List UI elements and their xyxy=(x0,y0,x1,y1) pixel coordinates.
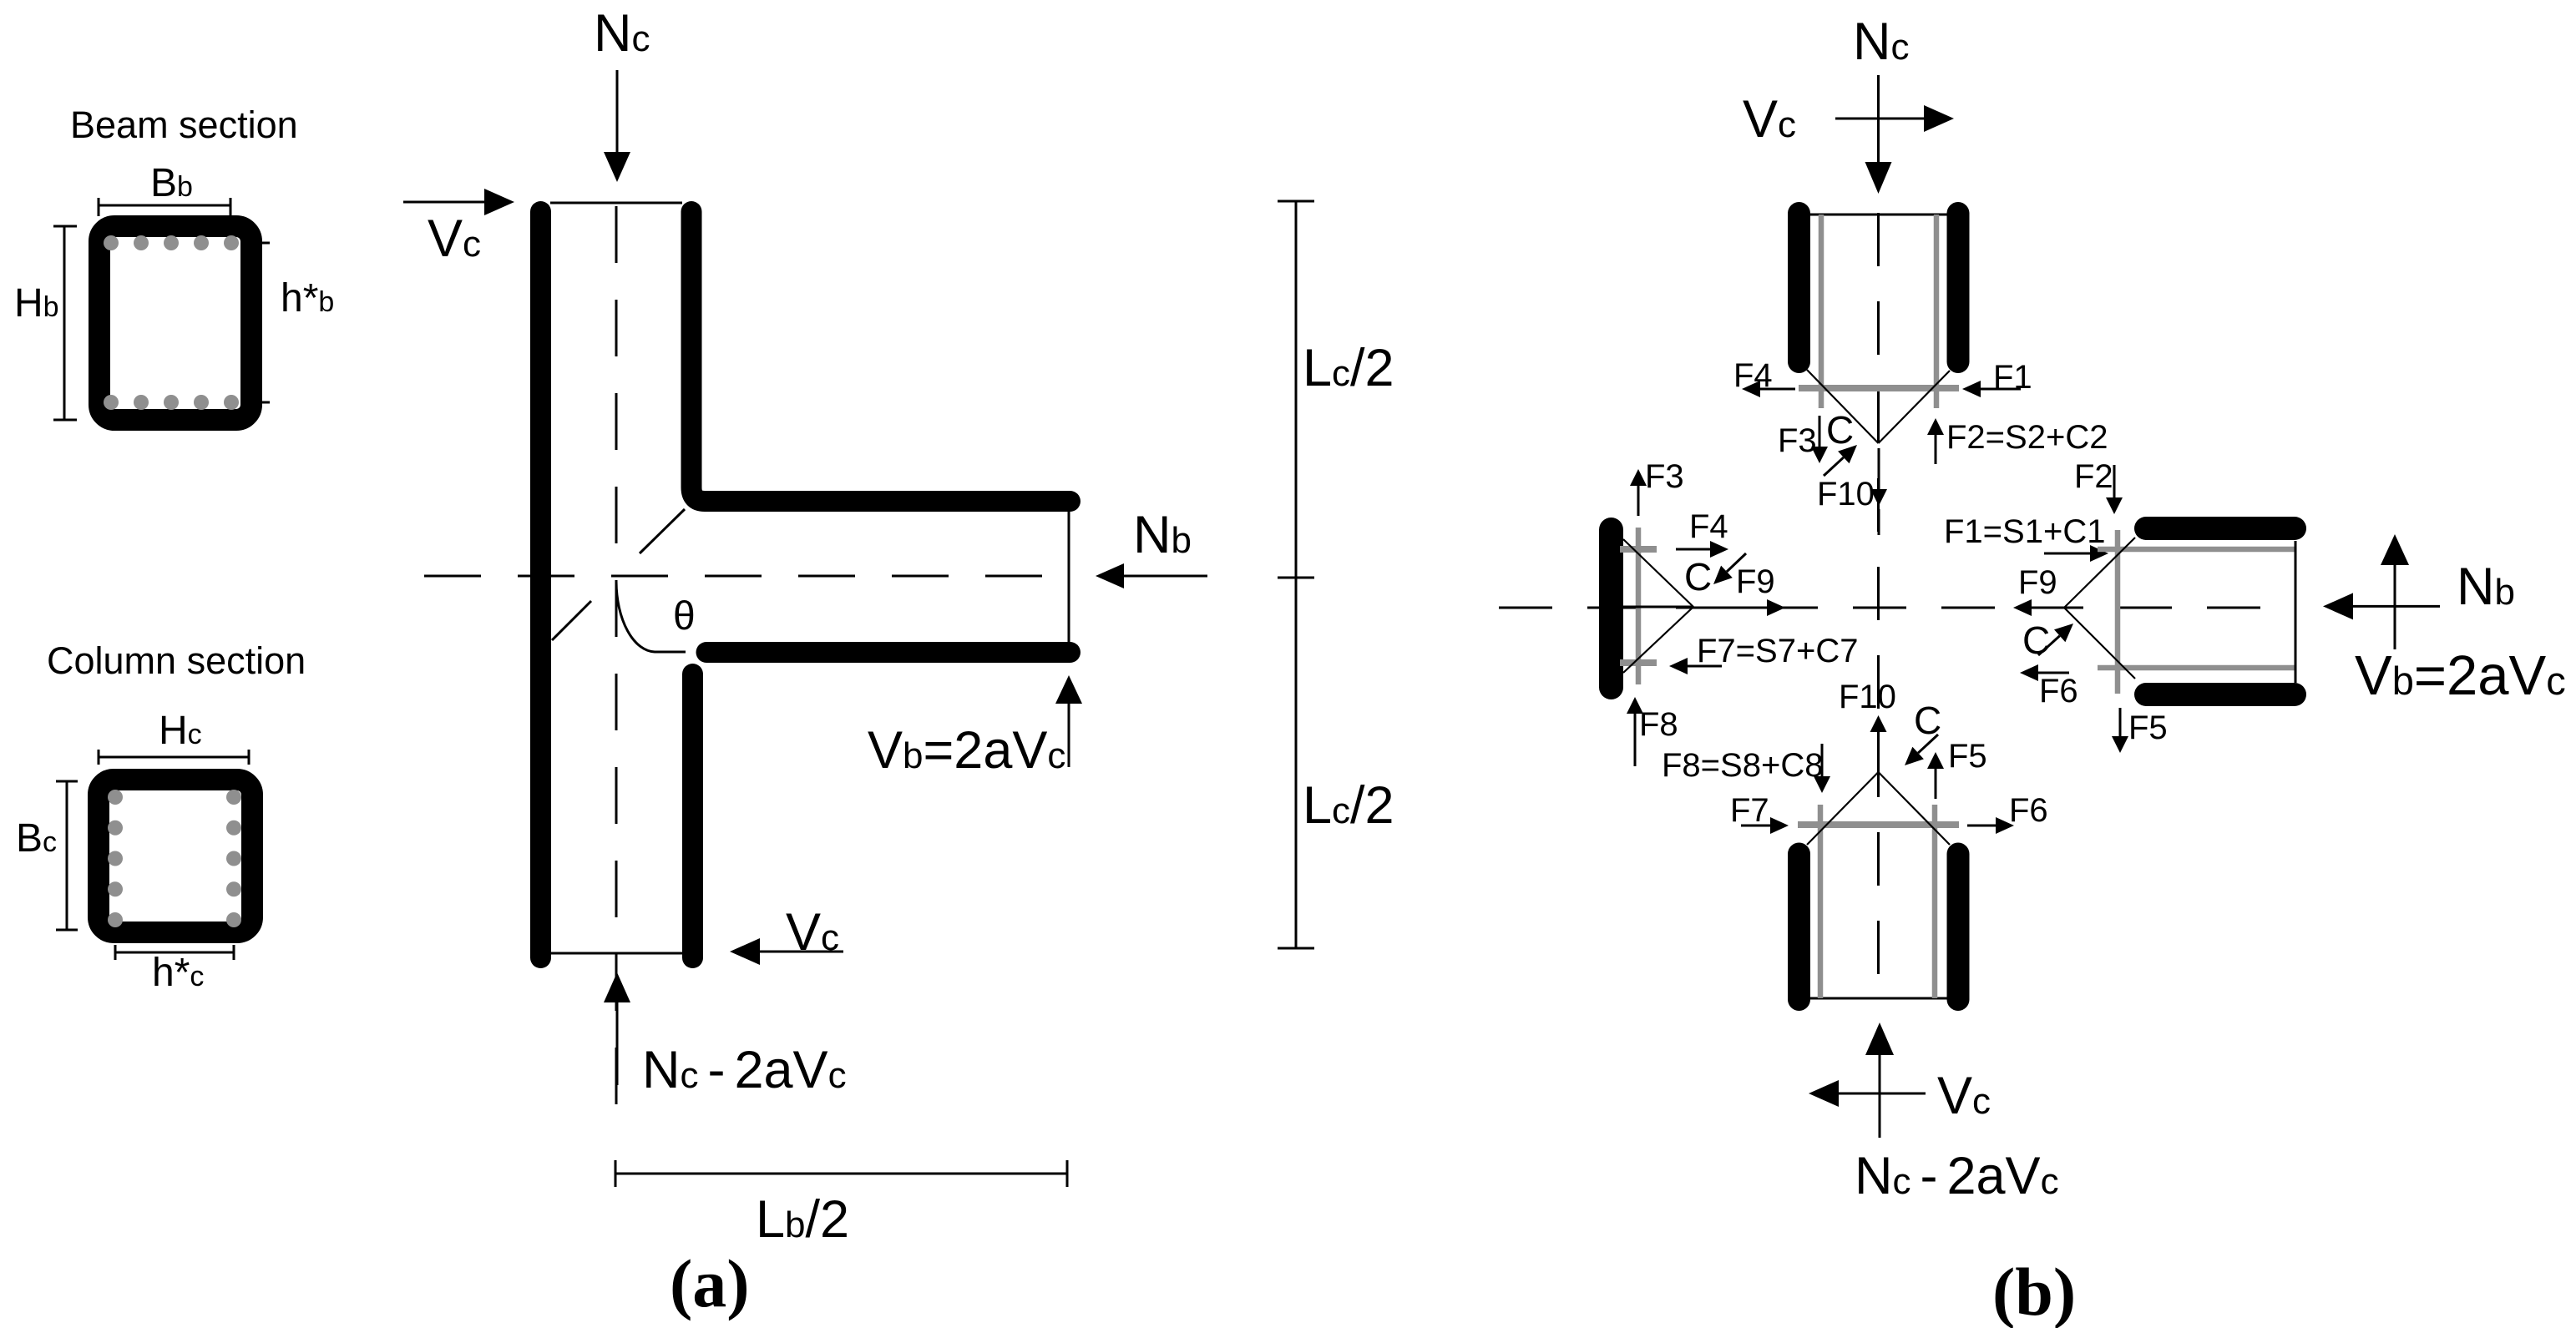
svg-text:Column section: Column section xyxy=(47,639,306,682)
svg-text:Nc-2aVc: Nc-2aVc xyxy=(642,1041,847,1099)
svg-text:F3: F3 xyxy=(1778,422,1817,459)
svg-text:(a): (a) xyxy=(670,1245,750,1321)
svg-text:Beam section: Beam section xyxy=(70,104,298,146)
svg-text:F9: F9 xyxy=(2018,564,2057,601)
svg-text:C: C xyxy=(1826,408,1854,452)
svg-text:F10: F10 xyxy=(1817,476,1875,513)
svg-text:Nc-2aVc: Nc-2aVc xyxy=(1855,1147,2059,1205)
svg-text:C: C xyxy=(2022,619,2050,662)
svg-text:F5: F5 xyxy=(2128,709,2168,746)
svg-text:F7: F7 xyxy=(1730,792,1769,829)
svg-text:F1=S1+C1: F1=S1+C1 xyxy=(1944,513,2105,550)
svg-text:Vb=2aVc: Vb=2aVc xyxy=(868,721,1065,780)
svg-text:F3: F3 xyxy=(1645,458,1684,495)
svg-text:F7=S7+C7: F7=S7+C7 xyxy=(1697,633,1858,669)
svg-text:F2: F2 xyxy=(2074,458,2113,495)
svg-text:F2=S2+C2: F2=S2+C2 xyxy=(1946,419,2108,456)
svg-text:F6: F6 xyxy=(2009,792,2048,829)
svg-text:C: C xyxy=(1684,555,1712,598)
svg-text:F5: F5 xyxy=(1948,738,1987,775)
svg-text:F8=S8+C8: F8=S8+C8 xyxy=(1662,747,1823,784)
svg-text:F4: F4 xyxy=(1689,508,1728,545)
svg-text:F6: F6 xyxy=(2039,673,2078,709)
svg-text:Vb=2aVc: Vb=2aVc xyxy=(2355,644,2566,707)
svg-text:F10: F10 xyxy=(1839,679,1896,715)
svg-text:(b): (b) xyxy=(1992,1254,2076,1328)
svg-text:F8: F8 xyxy=(1639,706,1678,743)
svg-text:F9: F9 xyxy=(1736,563,1775,600)
svg-text:θ: θ xyxy=(673,594,696,639)
